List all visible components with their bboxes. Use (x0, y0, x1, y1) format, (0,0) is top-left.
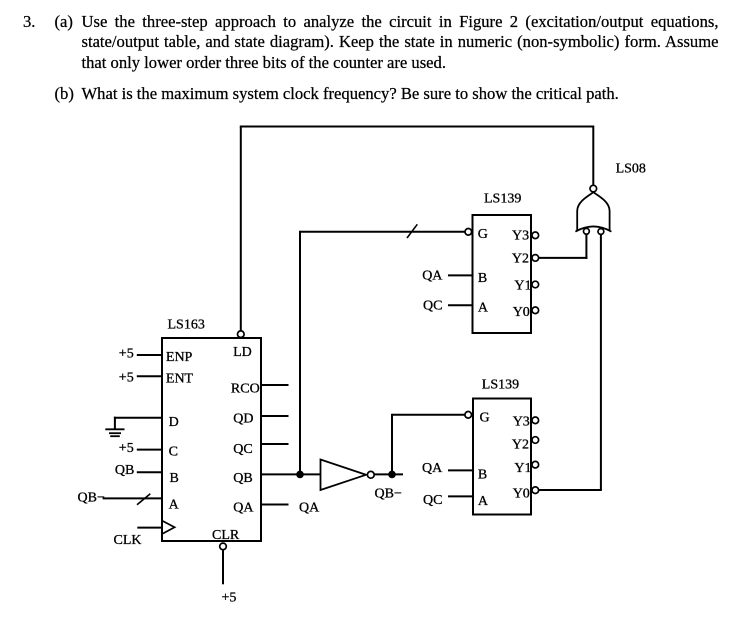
label LS08 (616, 162, 646, 177)
pin C with +5 (119, 441, 178, 460)
wire gate right input (600, 234, 602, 490)
pin Y2 of U2 with wire to gate (512, 234, 588, 267)
svg-text:+5: +5 (119, 441, 134, 456)
svg-text:B: B (170, 471, 179, 486)
svg-text:QA: QA (233, 501, 254, 516)
svg-text:QA: QA (422, 461, 443, 476)
svg-text:ENT: ENT (166, 372, 194, 387)
svg-text:QC: QC (233, 442, 252, 457)
clock pin CLK (114, 521, 175, 548)
inverter U4 (321, 460, 375, 491)
pin B of U2 from net QA (422, 269, 487, 286)
wire QB- to decoder U3 pin G (392, 414, 465, 475)
svg-text:B: B (478, 468, 487, 483)
svg-text:G: G (480, 411, 490, 426)
pin QC stub (233, 442, 288, 457)
svg-text:Y2: Y2 (512, 438, 529, 453)
svg-text:Y1: Y1 (514, 461, 531, 476)
pin LD with bubble (233, 331, 252, 360)
svg-text:G: G (478, 227, 488, 242)
bus slash on A wire (137, 494, 150, 505)
pin A of U3 from net QC (423, 493, 489, 509)
svg-text:D: D (169, 415, 179, 430)
AND gate U5 LS08 (negative-logic OR symbol) (575, 185, 611, 234)
svg-text:LS139: LS139 (482, 377, 519, 392)
svg-text:B: B (478, 271, 487, 286)
pin D wire (114, 415, 179, 430)
pin QA stub with net label QA (233, 500, 320, 515)
svg-text:ENP: ENP (166, 350, 193, 365)
pin Y1 of U3 (514, 461, 538, 476)
svg-text:A: A (478, 494, 489, 509)
part (b) paragraph (82, 84, 719, 105)
pin CLR with bubble and +5 (212, 528, 240, 606)
svg-text:+5: +5 (119, 347, 134, 362)
pin Y0 of U3 with wire to gate (513, 487, 602, 502)
pin Y0 of U2 (513, 305, 539, 320)
svg-text:RCO: RCO (231, 381, 260, 396)
wire QB to decoder U2 pin G (300, 231, 465, 475)
svg-text:Y2: Y2 (512, 252, 529, 267)
pin B of U3 from net QA (422, 461, 487, 483)
svg-text:Y1: Y1 (514, 278, 531, 293)
pin Y3 of U3 (513, 414, 539, 429)
svg-text:+5: +5 (119, 370, 134, 385)
decoder U3 LS139 (bottom) body (473, 399, 531, 515)
svg-text:+5: +5 (222, 591, 237, 606)
svg-text:LS08: LS08 (616, 162, 646, 177)
svg-text:QA: QA (422, 269, 443, 284)
svg-text:QC: QC (423, 493, 442, 508)
problem number (23, 12, 35, 33)
pin G of U3 (bubble) (465, 411, 490, 426)
node QB junction (296, 471, 304, 479)
svg-text:QB−: QB− (375, 487, 402, 502)
svg-text:A: A (169, 498, 180, 513)
wire LD to LS08 output (240, 126, 594, 331)
pin Y1 of U2 (514, 278, 538, 293)
pin QB output wire (233, 471, 320, 486)
wire inverter output QB- (374, 473, 403, 475)
svg-text:LS163: LS163 (168, 317, 205, 332)
pin A from net QB- (78, 491, 180, 513)
node QB- junction (388, 471, 396, 479)
svg-text:QB−: QB− (78, 491, 105, 506)
bus slash on G wire (407, 224, 417, 238)
part (a) label (55, 12, 73, 33)
svg-text:Y3: Y3 (513, 414, 530, 429)
svg-text:Y3: Y3 (512, 228, 529, 243)
label LS163 (168, 317, 205, 332)
label LS139 bottom (482, 377, 519, 392)
pin RCO stub (231, 381, 289, 396)
label QB- net (375, 487, 402, 502)
counter U1 LS163 body (162, 338, 261, 541)
svg-text:C: C (169, 445, 178, 460)
pin B from net QB (115, 463, 179, 486)
pin G of U2 (bubble) (465, 227, 488, 242)
pin ENT with +5 (119, 370, 194, 386)
svg-text:QB: QB (233, 471, 252, 486)
svg-text:A: A (478, 300, 489, 315)
svg-text:Y0: Y0 (513, 487, 530, 502)
part (b) label (55, 84, 74, 105)
svg-text:LD: LD (233, 345, 252, 360)
svg-text:QB: QB (115, 463, 134, 478)
pin A of U2 from net QC (423, 299, 489, 316)
decoder U2 LS139 (top) body (473, 215, 532, 333)
label LS139 top (484, 192, 521, 207)
svg-text:QC: QC (423, 299, 442, 314)
svg-text:CLR: CLR (212, 528, 240, 543)
pin ENP with +5 (119, 347, 193, 366)
pin Y2 of U3 (512, 437, 539, 453)
ground (105, 429, 124, 436)
pin Y3 of U2 (512, 228, 539, 243)
pin QD stub (233, 412, 288, 427)
part (a) paragraph (82, 12, 719, 74)
svg-text:LS139: LS139 (484, 192, 521, 207)
svg-text:CLK: CLK (114, 533, 142, 548)
svg-text:QA: QA (299, 500, 320, 515)
svg-text:QD: QD (233, 412, 253, 427)
svg-text:Y0: Y0 (513, 305, 530, 320)
